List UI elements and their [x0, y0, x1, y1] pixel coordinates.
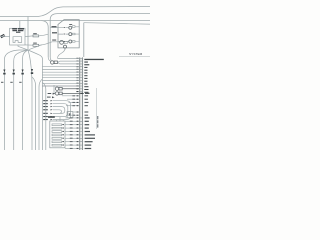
relay K1 label text — [12, 28, 24, 33]
ladder pin marks at box edge — [62, 124, 64, 145]
pin marks for loop rows — [77, 95, 79, 115]
inline connector on wire1 — [3, 70, 5, 75]
right labels for loop rows — [85, 95, 89, 115]
fuse box terminal 2 tab — [72, 33, 75, 35]
ladder rungs — [52, 124, 62, 146]
middle block rung rows — [79, 58, 83, 91]
arrow row labels — [47, 93, 51, 98]
bulb component M3 — [55, 92, 84, 95]
relay box bottom pin wire to junction — [18, 45, 28, 50]
wire loop middle — [53, 104, 68, 117]
wire top bus y=13.5 from vertical riser — [50, 14, 150, 58]
fuse box terminal row 2 wire — [58, 33, 69, 35]
ladder label — [48, 116, 55, 118]
mid-wire labels for loop rows — [72, 95, 75, 115]
diode connector symbols — [51, 100, 53, 120]
fuse F2 — [33, 44, 39, 46]
wire row to spine y=95.8 — [62, 95, 79, 97]
system module box top edge — [84, 23, 150, 25]
fuse F1 value label — [33, 33, 37, 34]
middle block right labels — [84, 59, 104, 93]
fuse F1 — [33, 35, 39, 37]
wire branch 4 down x=32 — [28, 50, 32, 150]
bulb component M2 — [55, 87, 79, 90]
inline connector on wire2 — [13, 70, 15, 75]
wire rows loops to spine — [66, 99, 79, 115]
wire fuse1 to vertical pair — [39, 34, 49, 36]
vertical label marks — [97, 116, 98, 128]
wire second vertical riser from bus — [42, 21, 49, 57]
fuse box row2 wire label — [52, 32, 57, 33]
fuse box terminal 3 tab — [72, 41, 75, 43]
diode row labels — [43, 100, 48, 120]
component M1 output wires — [57, 61, 79, 64]
wire1 color label — [1, 82, 3, 83]
bottom block mid-wire labels — [70, 117, 73, 148]
relay box K1 outline — [10, 28, 25, 45]
arrow connector rows above diode rows — [52, 93, 55, 98]
wires from verticals into component M1 — [48, 57, 51, 61]
fuse box terminal circle 3 — [69, 40, 72, 43]
wire branch to vertical bus x=42.4 — [28, 50, 42, 150]
bottom block right labels — [85, 117, 95, 149]
M3 wire pin blob — [81, 93, 83, 94]
wires circles to box right edge — [75, 27, 79, 42]
wires from loops into ladder top — [57, 117, 64, 121]
faint rule under SYSTEM — [119, 56, 150, 58]
wire branch 1 to left wire x=4.4 — [4, 50, 28, 150]
wire loop outer — [53, 101, 71, 120]
fuse box row3 wire label — [52, 40, 56, 41]
wire top bus y=20.5 — [0, 20, 150, 22]
P box inner mark — [69, 113, 71, 115]
fuse box terminal circle 2 — [69, 33, 72, 36]
connector spine (double vertical) — [80, 57, 83, 150]
bottom block rungs — [79, 118, 83, 149]
wire row mid exit — [53, 110, 62, 113]
small component box P — [67, 112, 73, 118]
wire branch 3 to left wire x=22.6 — [23, 50, 28, 150]
inline connector on wire3 — [21, 70, 23, 75]
fuse box row1 wire label — [52, 26, 57, 27]
ladder connector box — [50, 121, 65, 148]
fuse box terminal 1 tab — [72, 26, 75, 28]
cluster vertical wires — [32, 77, 46, 150]
wire riser to relay box x=19.8 — [19, 21, 21, 29]
fuse box terminal row 1 wire — [51, 27, 69, 29]
wire top bus y=16.5 sweeping up to y=6.5 — [0, 7, 150, 17]
fuse box terminal circle 1 — [69, 26, 72, 29]
faint vertical branch x=96.5 — [96, 88, 98, 129]
feed vertical to M2 M3 — [54, 85, 55, 93]
wire2 color label — [10, 82, 12, 83]
relay K1 inner coil box with notch — [13, 37, 22, 43]
svg-text:SYSTEM: SYSTEM — [129, 52, 143, 56]
wire battery to relay box — [0, 36, 10, 38]
middle block pin numbers — [76, 58, 78, 92]
darker wire row y=86 — [42, 85, 79, 87]
fuse box terminal row 3 wire — [58, 41, 69, 43]
wire relay box to fuse1 — [25, 35, 33, 38]
fuse box label above circle1 — [69, 23, 72, 26]
wire loop inner — [53, 107, 65, 114]
wire fuse2 toward fuse box — [39, 42, 58, 46]
bottom block wires to spine — [65, 118, 79, 149]
fuse box bottom grommet circle — [64, 45, 67, 48]
wire3 color label — [19, 82, 21, 83]
wire relay box to fuse2 — [25, 44, 33, 46]
wire octagon grommet down to row1 — [58, 48, 80, 58]
contact dashes in fuse box — [64, 27, 66, 42]
fuse2 branch ray into junction — [29, 45, 42, 50]
fuse box lower relay tab — [64, 41, 67, 43]
M3 wire label — [85, 93, 90, 94]
wire branch 2 to left wire x=13.7 — [14, 50, 28, 150]
fuse box lower relay circle — [60, 41, 64, 45]
bulb component M1 (circle+box) — [51, 61, 58, 64]
fuse box outline (chamfered corner) — [58, 20, 79, 48]
wire riser x=28 from bus to star junction — [27, 17, 29, 51]
system module box outline — [83, 23, 85, 57]
fuse F2 value label — [33, 43, 37, 44]
bottom block pin numbers — [77, 117, 79, 149]
inline connector on wire4 — [31, 69, 33, 74]
bus branch rows to connector — [42, 67, 79, 84]
connector to battery (left arrow symbol) — [0, 34, 5, 38]
